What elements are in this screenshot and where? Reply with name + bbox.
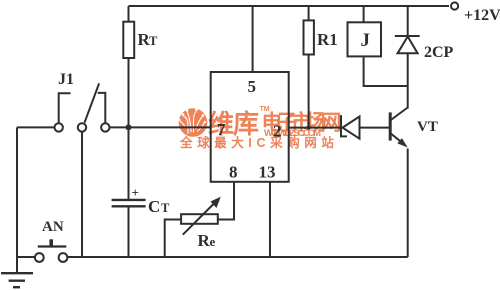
wire c1 hook up-right [59,93,71,123]
pushbutton AN circle B [59,253,68,262]
wire J1 switch arm [85,83,100,122]
wire rail to +12V terminal [451,2,458,9]
J1 contact circle c3 [101,123,109,131]
wire CT bottom to ground bus [128,206,130,257]
svg-text:2CP: 2CP [424,44,454,61]
wire left to J1 contact c1 [17,126,54,128]
J1 contact circle c1 [55,123,63,131]
relay coil J box [348,22,382,56]
pushbutton AN circle A [35,253,44,262]
diode VD cathode bar [341,115,347,136]
resistor R1 [304,20,314,54]
pushbutton AN actuator bar [38,245,67,247]
wire c2 down to AN bus [81,132,83,257]
svg-text:T: T [149,34,158,48]
transistor VT collector diagonal [391,108,408,121]
wire Re left to bus [165,220,181,258]
svg-text:J: J [361,30,371,51]
svg-text:全球最大IC采购网站: 全球最大IC采购网站 [179,135,339,150]
transistor VT emitter diagonal [391,134,401,142]
svg-text:8: 8 [229,163,238,182]
wire AN left segment [17,256,35,258]
svg-text:R1: R1 [317,30,338,49]
ground bar 1 [1,272,33,274]
J1 contact circle c2 [78,123,86,131]
wire RT branch vertical [128,6,130,22]
svg-text:e: e [210,234,216,249]
svg-text:+12V: +12V [464,7,500,24]
rheostat Re body [181,214,218,224]
transistor VT emitter arrowhead [397,138,407,147]
rheostat Re arrow shaft [183,202,216,235]
diode 2CP triangle [398,37,418,54]
transistor VT base bar [389,112,392,140]
wire 2CP branch from rail down [407,6,409,36]
svg-text:维库: 维库 [208,109,259,139]
ground bar 2 [9,280,25,282]
svg-text:AN: AN [42,219,64,235]
svg-text:13: 13 [259,163,276,182]
svg-text:C: C [148,197,160,216]
watermark logo circle [178,108,207,137]
wire top power rail [129,5,450,7]
svg-text:5: 5 [248,77,257,96]
capacitor CT bottom plate [112,205,146,207]
svg-text:T: T [161,201,170,215]
svg-text:2: 2 [273,122,282,141]
wire J coil branch vertical [363,6,365,22]
wire pin5 to rail [252,6,254,72]
svg-text:+: + [132,185,139,200]
pushbutton AN stem [49,239,53,246]
wire 2CP to collector bend [407,53,409,108]
svg-text:J1: J1 [58,71,74,88]
wire R1 bottom to base wire [308,55,310,128]
wire J bottom to collector node [364,56,408,86]
wire c3 hook up-left [98,93,106,123]
node junction dot R1 / base wire [306,125,310,129]
rheostat Re arrowhead [211,197,221,208]
wire RT bottom to junction to CT [128,58,130,200]
ground bar 3 [13,286,20,288]
diode VD triangle [343,117,360,139]
svg-text:7: 7 [217,120,226,139]
wire IC box [211,72,289,182]
wire R1 branch vertical top [308,6,310,20]
wire pin2 to diode VD [289,127,340,129]
wire c3 to IC pin7 [110,126,211,128]
wire pin13 down to bus [269,182,271,257]
wire left rail vertical to ground [16,127,18,273]
wire ground bus bottom [68,256,408,258]
diode 2CP cathode bar [395,35,420,37]
wire emitter down to bus [407,149,409,258]
wire pin8 down and left to Re [218,182,234,220]
resistor RT [123,22,134,58]
node junction dot RT / J1 wire [126,124,132,130]
capacitor CT top plate [112,199,146,201]
wire diode to transistor base [360,127,390,129]
svg-text:VT: VT [417,119,438,135]
